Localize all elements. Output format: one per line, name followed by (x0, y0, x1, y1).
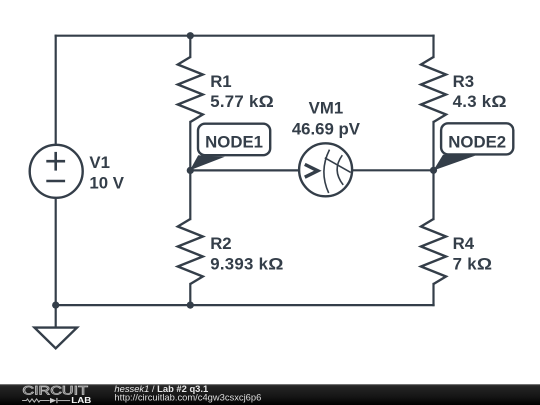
svg-text:NODE1: NODE1 (205, 132, 263, 151)
svg-text:VM1: VM1 (309, 99, 344, 118)
svg-text:V1: V1 (89, 153, 110, 172)
svg-text:LAB: LAB (71, 396, 91, 405)
svg-text:R1: R1 (210, 72, 231, 91)
svg-text:9.393 kΩ: 9.393 kΩ (210, 254, 284, 273)
svg-text:4.3 kΩ: 4.3 kΩ (453, 92, 507, 111)
svg-text:10 V: 10 V (89, 173, 124, 192)
svg-text:R4: R4 (453, 234, 475, 253)
svg-text:7 kΩ: 7 kΩ (453, 254, 493, 273)
svg-text:46.69 pV: 46.69 pV (292, 119, 361, 138)
svg-text:R2: R2 (210, 234, 231, 253)
svg-text:5.77 kΩ: 5.77 kΩ (210, 92, 274, 111)
svg-text:http://circuitlab.com/c4gw3csx: http://circuitlab.com/c4gw3csxcj6p6 (114, 391, 261, 402)
svg-text:NODE2: NODE2 (448, 132, 506, 151)
svg-text:R3: R3 (453, 72, 474, 91)
